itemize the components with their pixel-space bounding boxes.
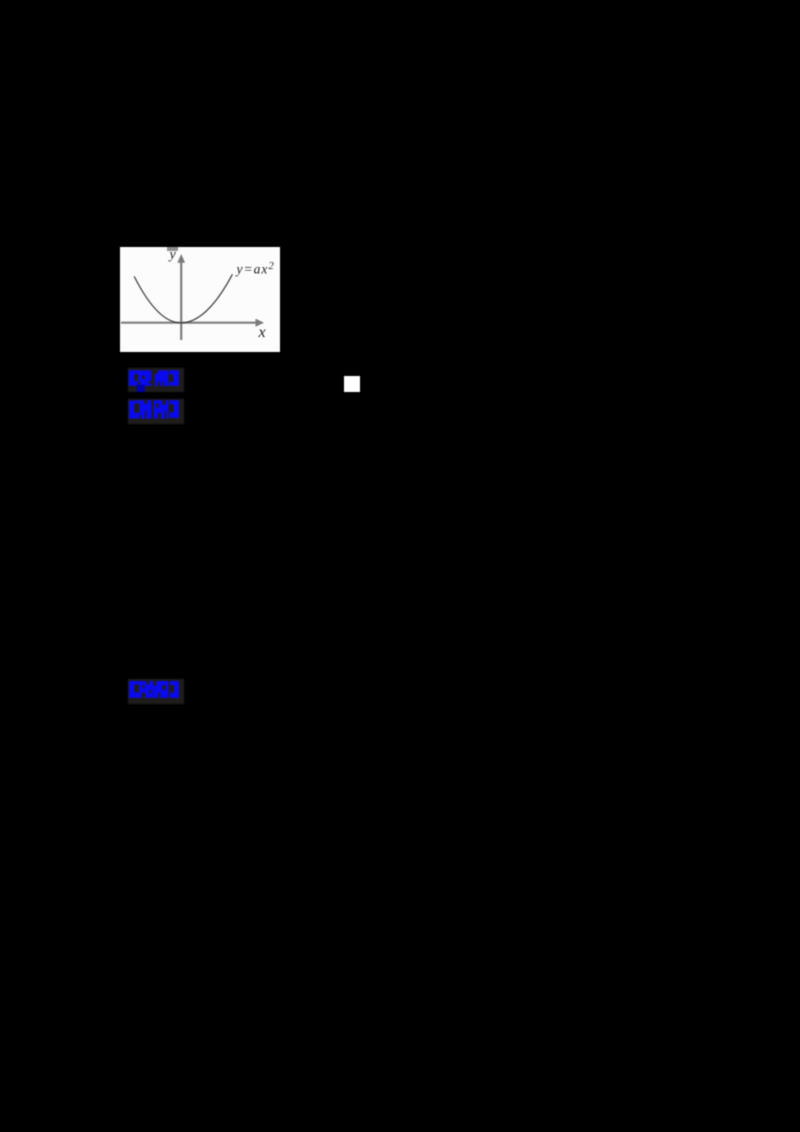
svg-text:y: y bbox=[168, 248, 177, 263]
svg-text:y=ax2: y=ax2 bbox=[235, 260, 275, 276]
svg-text:x: x bbox=[258, 324, 266, 341]
